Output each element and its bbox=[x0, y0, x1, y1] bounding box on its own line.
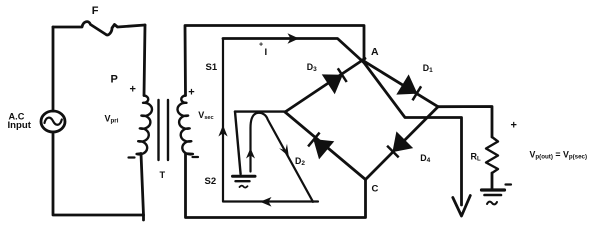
svg-text:P: P bbox=[111, 74, 118, 86]
svg-text:T: T bbox=[160, 170, 166, 180]
svg-text:D4: D4 bbox=[420, 153, 430, 164]
svg-text:+: + bbox=[188, 87, 194, 99]
svg-text:F: F bbox=[92, 5, 99, 17]
svg-text:S1: S1 bbox=[206, 62, 218, 73]
svg-text:Input: Input bbox=[8, 120, 32, 131]
svg-text:+: + bbox=[259, 42, 263, 49]
svg-text:+: + bbox=[130, 84, 136, 96]
svg-text:Vsec: Vsec bbox=[198, 110, 213, 121]
svg-text:C: C bbox=[372, 184, 379, 195]
svg-text:Vp(out) = Vp(sec): Vp(out) = Vp(sec) bbox=[530, 150, 588, 161]
svg-text:Vpri: Vpri bbox=[105, 114, 119, 125]
svg-text:A: A bbox=[371, 46, 379, 58]
svg-text:I: I bbox=[265, 47, 268, 58]
svg-text:+: + bbox=[511, 120, 517, 132]
svg-text:D2: D2 bbox=[295, 156, 305, 167]
svg-text:D3: D3 bbox=[307, 62, 317, 73]
svg-text:RL: RL bbox=[471, 152, 482, 163]
svg-text:D1: D1 bbox=[423, 63, 433, 74]
svg-text:S2: S2 bbox=[205, 176, 217, 187]
